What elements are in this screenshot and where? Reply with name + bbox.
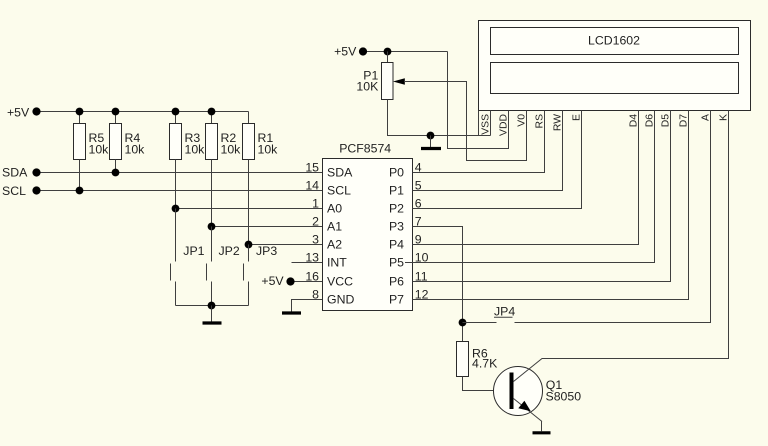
node rail-R3 bbox=[172, 108, 180, 116]
wire jumpers ground stem bbox=[211, 306, 213, 322]
wire R5 bottom to SCL bbox=[79, 160, 81, 191]
wire R5 top bbox=[79, 112, 81, 124]
node SDA-R4 junction bbox=[112, 169, 120, 177]
svg-text:RW: RW bbox=[553, 114, 564, 131]
svg-text:1: 1 bbox=[312, 196, 319, 210]
jumper JP3 bottom wire bbox=[248, 282, 250, 306]
svg-text:D6: D6 bbox=[645, 114, 656, 128]
PCF8574 IC body bbox=[323, 159, 413, 311]
svg-text:P5: P5 bbox=[389, 256, 404, 270]
wire SDA bbox=[41, 172, 323, 174]
wire GND pin bbox=[292, 300, 323, 312]
svg-text:GND: GND bbox=[327, 293, 354, 307]
node VSS ground junction bbox=[427, 132, 435, 140]
svg-text:E: E bbox=[572, 114, 583, 121]
Q1 emitter arrowhead bbox=[518, 401, 531, 412]
Q1 base bar bbox=[510, 373, 514, 410]
svg-text:P3: P3 bbox=[389, 220, 404, 234]
svg-text:V0: V0 bbox=[517, 114, 528, 127]
svg-text:VCC: VCC bbox=[327, 275, 353, 289]
svg-text:P4: P4 bbox=[389, 238, 404, 252]
node A2 junction bbox=[245, 241, 253, 249]
ground below jumpers bbox=[203, 321, 222, 324]
wire A1 bbox=[212, 226, 323, 228]
svg-text:D7: D7 bbox=[679, 114, 690, 128]
svg-text:10K: 10K bbox=[356, 80, 379, 94]
wire +5V rail bbox=[41, 111, 249, 113]
node rail-R5 bbox=[76, 108, 84, 116]
node JP4 junction bbox=[459, 319, 467, 327]
node rail-R4 bbox=[112, 108, 120, 116]
svg-text:+5V: +5V bbox=[7, 105, 30, 119]
wire P2 to E bbox=[413, 111, 582, 209]
wire VCC bbox=[295, 281, 323, 283]
Q1 emitter ground stem bbox=[541, 422, 543, 432]
wire R3 bottom to A0 bbox=[175, 160, 177, 209]
svg-text:JP3: JP3 bbox=[256, 244, 277, 258]
svg-text:VSS: VSS bbox=[481, 114, 492, 135]
wire P1 bottom to VSS bbox=[388, 100, 491, 136]
svg-text:INT: INT bbox=[327, 256, 347, 270]
svg-text:13: 13 bbox=[305, 250, 319, 264]
ground below P1/VSS bbox=[421, 147, 441, 150]
wire VSS left drop bbox=[478, 111, 480, 136]
wire A2 bbox=[249, 244, 323, 246]
potentiometer P1 body bbox=[382, 63, 394, 100]
svg-text:K: K bbox=[719, 114, 730, 121]
node +5V terminal P1 bbox=[359, 47, 367, 55]
Q1 collector wire to K bbox=[514, 111, 729, 382]
svg-text:LCD1602: LCD1602 bbox=[588, 33, 640, 47]
wire P7 to D7 bbox=[413, 111, 689, 300]
svg-text:PCF8574: PCF8574 bbox=[339, 142, 391, 156]
svg-text:SDA: SDA bbox=[2, 166, 28, 180]
svg-text:4.7K: 4.7K bbox=[472, 357, 498, 371]
wire INT stub bbox=[292, 262, 323, 264]
wire R3 top bbox=[175, 112, 177, 124]
wire R4 bottom to SDA bbox=[115, 160, 117, 173]
svg-text:JP2: JP2 bbox=[219, 244, 240, 258]
jumper JP3 top wire bbox=[248, 245, 250, 262]
svg-text:RS: RS bbox=[535, 114, 546, 129]
wire R6 bottom to Q1 base bbox=[463, 377, 510, 391]
svg-text:16: 16 bbox=[305, 269, 319, 283]
wire R1 bottom to A2 bbox=[248, 160, 250, 245]
resistor R1 body bbox=[243, 124, 255, 160]
wire R2 bottom to A1 bbox=[211, 160, 213, 227]
wire +5V to P1 and VDD corner bbox=[367, 51, 448, 53]
wire R1 top bbox=[248, 112, 250, 124]
node A0 junction bbox=[172, 205, 180, 213]
wire +5V to VDD bbox=[448, 52, 509, 149]
svg-text:SCL: SCL bbox=[327, 184, 351, 198]
svg-text:3: 3 bbox=[312, 232, 319, 246]
wire VSS pin bbox=[490, 111, 492, 136]
node jumpers ground junction bbox=[208, 302, 216, 310]
jumper JP4 left wire bbox=[463, 322, 497, 324]
svg-text:SDA: SDA bbox=[327, 166, 353, 180]
svg-text:10k: 10k bbox=[221, 143, 242, 157]
jumper JP2 bottom wire bbox=[211, 282, 213, 306]
svg-text:VDD: VDD bbox=[499, 114, 510, 136]
svg-text:P0: P0 bbox=[389, 166, 404, 180]
wire A0 bbox=[176, 208, 323, 210]
resistor R4 body bbox=[110, 124, 122, 160]
LCD1602 display row 2 bbox=[491, 63, 739, 94]
Q1 emitter wire bbox=[514, 399, 543, 422]
wire P4 to D4 bbox=[413, 111, 639, 245]
svg-text:A0: A0 bbox=[327, 202, 342, 216]
svg-text:A2: A2 bbox=[327, 238, 342, 252]
jumper JP4 right wire to A bbox=[515, 111, 711, 323]
wire P1 top bbox=[387, 52, 389, 63]
node A1 junction bbox=[208, 223, 216, 231]
svg-text:10k: 10k bbox=[185, 143, 206, 157]
svg-text:10k: 10k bbox=[258, 143, 279, 157]
svg-text:P1: P1 bbox=[389, 184, 404, 198]
svg-text:15: 15 bbox=[305, 160, 319, 174]
svg-text:8: 8 bbox=[312, 287, 319, 301]
svg-text:P2: P2 bbox=[389, 202, 404, 216]
LCD1602 module outline bbox=[479, 21, 751, 111]
JP4 label underline bbox=[494, 316, 513, 318]
wire P6 to D5 bbox=[413, 111, 671, 282]
node P1 top junction bbox=[384, 48, 392, 56]
resistor R6 body bbox=[457, 342, 469, 377]
node SCL terminal bbox=[32, 186, 40, 194]
ground below Q1 emitter bbox=[533, 431, 551, 434]
svg-text:10k: 10k bbox=[89, 143, 110, 157]
node rail-R2 bbox=[208, 108, 216, 116]
transistor Q1 circle bbox=[494, 367, 543, 416]
resistor R5 body bbox=[74, 124, 86, 160]
wire P1pin to RW bbox=[413, 111, 563, 191]
jumper JP1 pad bbox=[170, 264, 172, 281]
jumper JP1 top wire bbox=[175, 209, 177, 262]
jumper JP2 top wire bbox=[211, 227, 213, 262]
jumper JP2 pad bbox=[206, 264, 208, 281]
svg-text:+5V: +5V bbox=[261, 274, 284, 288]
resistor R2 body bbox=[206, 124, 218, 160]
wire P1 wiper to V0 bbox=[404, 82, 527, 161]
jumper JP1 bottom wire bbox=[175, 282, 177, 306]
wire P5 to D6 bbox=[413, 111, 655, 263]
node +5V terminal top-left bbox=[32, 107, 40, 115]
wire P0 to RS bbox=[413, 111, 545, 173]
svg-text:JP1: JP1 bbox=[183, 244, 204, 258]
node SCL-R5 junction bbox=[76, 187, 84, 195]
svg-text:A1: A1 bbox=[327, 220, 342, 234]
jumper JP3 pad bbox=[243, 264, 245, 281]
wire R2 top bbox=[211, 112, 213, 124]
svg-text:SCL: SCL bbox=[2, 184, 26, 198]
svg-text:JP4: JP4 bbox=[494, 305, 515, 319]
P5 inner dash bbox=[405, 262, 413, 264]
P1 wiper arrowhead bbox=[393, 78, 405, 84]
resistor R3 body bbox=[170, 124, 182, 160]
svg-text:S8050: S8050 bbox=[546, 389, 582, 403]
svg-text:14: 14 bbox=[305, 178, 319, 192]
svg-text:10k: 10k bbox=[125, 143, 146, 157]
node +5V terminal VCC bbox=[286, 277, 294, 285]
svg-text:P6: P6 bbox=[389, 275, 404, 289]
svg-text:D5: D5 bbox=[661, 114, 672, 128]
wire R4 top bbox=[115, 112, 117, 124]
wire SCL bbox=[41, 190, 323, 192]
wire jumpers common bbox=[176, 305, 249, 307]
svg-text:D4: D4 bbox=[629, 114, 640, 128]
wire ground stem P1 bbox=[430, 136, 432, 148]
svg-text:2: 2 bbox=[312, 214, 319, 228]
LCD1602 display row 1 bbox=[491, 28, 739, 55]
node SDA terminal bbox=[32, 168, 40, 176]
svg-text:+5V: +5V bbox=[334, 45, 357, 59]
ground below IC GND pin bbox=[282, 311, 301, 314]
svg-text:P7: P7 bbox=[389, 293, 404, 307]
svg-text:A: A bbox=[701, 114, 712, 121]
wire P3 down to R6 bbox=[413, 227, 463, 342]
